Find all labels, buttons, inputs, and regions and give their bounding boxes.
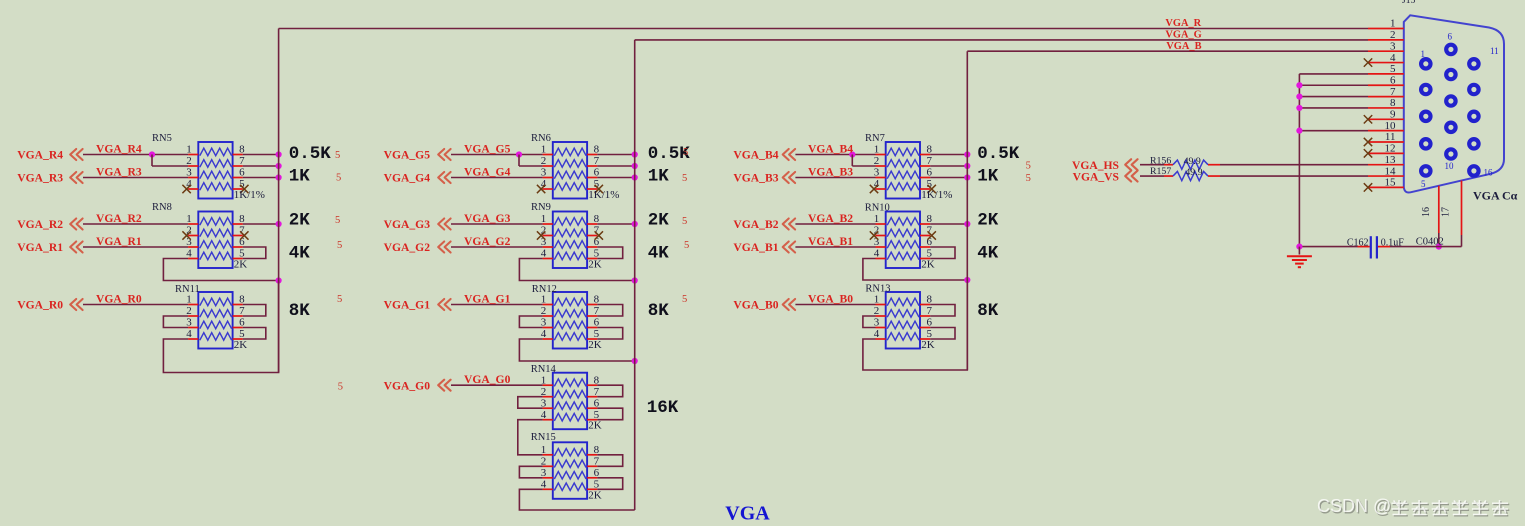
svg-text:1K/1%: 1K/1% (234, 189, 265, 201)
svg-text:10: 10 (1445, 161, 1455, 171)
svg-text:5: 5 (337, 294, 342, 305)
svg-text:5: 5 (683, 147, 688, 158)
svg-text:VGA_G1: VGA_G1 (464, 292, 511, 305)
svg-text:RN15: RN15 (531, 432, 556, 443)
svg-text:VGA_B3: VGA_B3 (733, 172, 778, 185)
svg-text:VGA_G0: VGA_G0 (384, 379, 431, 392)
svg-text:5: 5 (684, 240, 689, 251)
svg-text:VGA_B4: VGA_B4 (808, 142, 853, 155)
svg-text:VGA_B3: VGA_B3 (808, 165, 853, 178)
svg-text:RN9: RN9 (531, 202, 551, 213)
svg-text:2K: 2K (977, 211, 999, 231)
svg-text:8: 8 (1390, 97, 1396, 109)
svg-text:VGA_R3: VGA_R3 (96, 165, 142, 178)
svg-text:2K: 2K (588, 489, 602, 501)
svg-text:1K/1%: 1K/1% (588, 189, 619, 201)
svg-text:6: 6 (1448, 32, 1453, 42)
svg-text:VGA_B: VGA_B (1166, 41, 1201, 52)
svg-text:VGA_G2: VGA_G2 (464, 235, 511, 248)
svg-text:VGA_R3: VGA_R3 (17, 172, 63, 185)
svg-text:5: 5 (1421, 179, 1426, 189)
svg-text:5: 5 (335, 150, 340, 161)
svg-text:VGA_G3: VGA_G3 (384, 218, 431, 231)
svg-text:J15: J15 (1402, 0, 1415, 6)
svg-text:4: 4 (1390, 52, 1396, 64)
svg-text:8K: 8K (977, 301, 999, 321)
svg-text:VGA_B2: VGA_B2 (733, 218, 778, 231)
svg-text:R157: R157 (1150, 166, 1171, 177)
svg-text:7: 7 (1390, 86, 1396, 98)
svg-text:C0402: C0402 (1416, 237, 1444, 248)
svg-text:0.5K: 0.5K (977, 144, 1020, 164)
svg-text:CSDN @: CSDN @ (1317, 496, 1391, 516)
svg-text:2K: 2K (588, 420, 602, 432)
svg-text:VGA_R2: VGA_R2 (17, 218, 63, 231)
svg-text:10: 10 (1385, 120, 1397, 132)
svg-text:VGA_G4: VGA_G4 (464, 165, 511, 178)
svg-text:RN12: RN12 (532, 284, 557, 295)
svg-text:16: 16 (1484, 168, 1494, 178)
svg-text:RN11: RN11 (175, 284, 200, 295)
svg-text:VGA_G0: VGA_G0 (464, 373, 511, 386)
svg-text:VGA_G5: VGA_G5 (384, 149, 431, 162)
svg-text:1: 1 (1421, 49, 1426, 59)
svg-text:RN7: RN7 (865, 133, 885, 144)
svg-text:1K: 1K (289, 166, 311, 186)
svg-text:VGA_R2: VGA_R2 (96, 212, 142, 225)
svg-text:17: 17 (1441, 207, 1452, 217)
svg-text:VGA_G1: VGA_G1 (384, 299, 431, 312)
svg-text:5: 5 (682, 216, 687, 227)
svg-text:1K: 1K (977, 166, 999, 186)
svg-text:VGA_R1: VGA_R1 (96, 235, 142, 248)
svg-text:1K: 1K (648, 166, 670, 186)
svg-text:2K: 2K (234, 339, 248, 351)
svg-text:RN13: RN13 (865, 284, 890, 295)
svg-text:VGA_B0: VGA_B0 (808, 292, 853, 305)
svg-text:0.1uF: 0.1uF (1381, 238, 1405, 249)
svg-text:RN8: RN8 (152, 202, 172, 213)
svg-text:11: 11 (1385, 131, 1396, 143)
svg-text:RN10: RN10 (865, 202, 890, 213)
svg-text:5: 5 (336, 173, 341, 184)
svg-text:2K: 2K (921, 259, 935, 271)
svg-text:VGA_G5: VGA_G5 (464, 142, 511, 155)
svg-text:5: 5 (682, 294, 687, 305)
svg-text:2K: 2K (234, 259, 248, 271)
svg-text:16: 16 (1421, 207, 1432, 217)
svg-text:5: 5 (335, 215, 340, 226)
svg-text:2K: 2K (588, 259, 602, 271)
svg-text:8K: 8K (289, 301, 311, 321)
svg-text:2K: 2K (588, 339, 602, 351)
svg-text:11: 11 (1490, 46, 1499, 56)
svg-text:RN5: RN5 (152, 133, 172, 144)
svg-text:RN6: RN6 (531, 133, 551, 144)
svg-text:14: 14 (1385, 165, 1397, 177)
svg-text:R156: R156 (1150, 155, 1171, 166)
svg-text:VGA_B1: VGA_B1 (733, 241, 778, 254)
svg-text:5: 5 (338, 382, 343, 393)
svg-text:2K: 2K (921, 339, 935, 351)
svg-text:1K/1%: 1K/1% (921, 189, 952, 201)
svg-text:3: 3 (1390, 40, 1396, 52)
svg-text:VGA_R: VGA_R (1165, 18, 1201, 29)
svg-text:4K: 4K (977, 244, 999, 264)
svg-text:RN14: RN14 (531, 364, 557, 375)
svg-text:VGA_R4: VGA_R4 (96, 142, 142, 155)
svg-text:9: 9 (1390, 109, 1396, 121)
svg-text:5: 5 (337, 240, 342, 251)
svg-text:C162: C162 (1347, 238, 1369, 249)
svg-text:VGA_VS: VGA_VS (1073, 170, 1119, 183)
svg-text:8K: 8K (648, 301, 670, 321)
svg-text:49.9: 49.9 (1184, 156, 1201, 167)
svg-text:15: 15 (1385, 177, 1397, 189)
svg-text:VGA_R0: VGA_R0 (96, 292, 142, 305)
svg-text:4K: 4K (289, 244, 311, 264)
svg-text:5: 5 (682, 173, 687, 184)
svg-text:VGA: VGA (725, 503, 770, 525)
svg-text:2K: 2K (289, 211, 311, 231)
svg-text:0.5K: 0.5K (289, 144, 332, 164)
svg-text:VGA_B0: VGA_B0 (733, 299, 778, 312)
svg-text:5: 5 (1026, 160, 1031, 171)
svg-text:VGA_B1: VGA_B1 (808, 235, 853, 248)
svg-text:VGA_R4: VGA_R4 (17, 149, 63, 162)
svg-text:VGA_B4: VGA_B4 (733, 149, 778, 162)
svg-text:5: 5 (1390, 63, 1396, 75)
svg-text:VGA_G3: VGA_G3 (464, 212, 511, 225)
svg-text:1: 1 (541, 444, 547, 456)
svg-text:VGA_R1: VGA_R1 (17, 241, 63, 254)
svg-text:VGA_G: VGA_G (1165, 30, 1201, 41)
svg-text:16K: 16K (647, 398, 679, 418)
svg-text:6: 6 (1390, 74, 1396, 86)
svg-text:1: 1 (1390, 18, 1396, 30)
svg-text:VGA Cα: VGA Cα (1473, 189, 1518, 203)
svg-text:VGA_B2: VGA_B2 (808, 212, 853, 225)
svg-text:VGA_R0: VGA_R0 (17, 299, 63, 312)
svg-text:12: 12 (1385, 143, 1396, 155)
svg-text:VGA_G2: VGA_G2 (384, 241, 431, 254)
svg-text:2: 2 (1390, 29, 1396, 41)
svg-text:VGA_G4: VGA_G4 (384, 172, 431, 185)
svg-text:49.9: 49.9 (1185, 167, 1202, 178)
svg-text:4K: 4K (648, 244, 670, 264)
svg-text:13: 13 (1385, 154, 1397, 166)
svg-text:2K: 2K (648, 211, 670, 231)
svg-text:5: 5 (1026, 173, 1031, 184)
